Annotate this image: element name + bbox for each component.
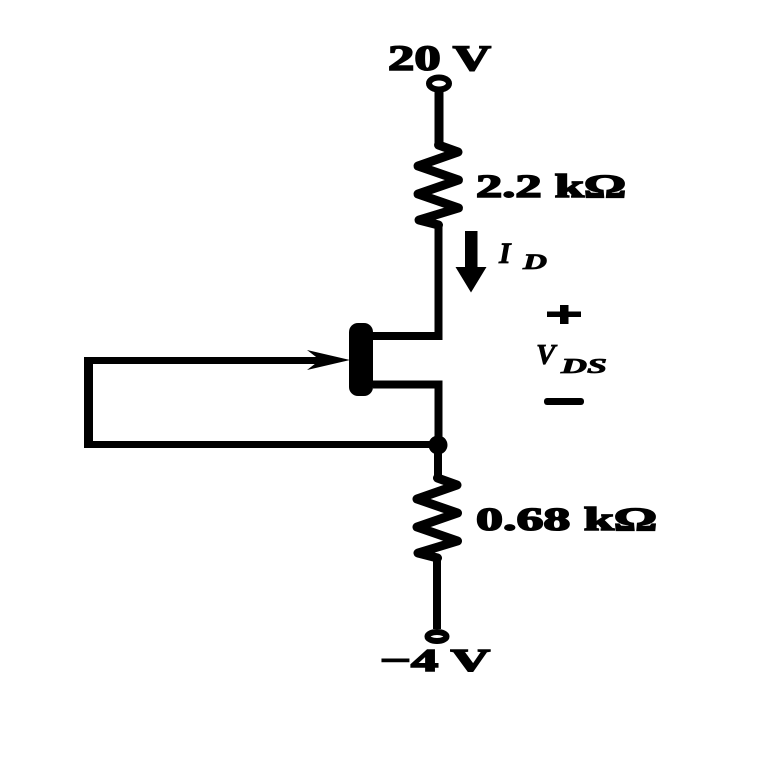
wire gate lead [89,357,331,364]
junction node dot [429,436,448,455]
wire R1 to drain [372,224,439,336]
gate arrowhead [307,350,350,370]
svg-text:D: D [521,249,547,274]
wire VDD to R1 [435,90,444,146]
wire junction to R2 [434,444,442,479]
svg-text:DS: DS [559,354,607,378]
label VDS [536,339,607,378]
label minus [544,398,584,405]
svg-text:2.2 kΩ: 2.2 kΩ [476,169,626,205]
svg-text:I: I [498,237,512,270]
resistor R1 2.2 kOhm [418,145,459,225]
wire feedback bottom horizontal [84,441,437,448]
svg-text:0.68 kΩ: 0.68 kΩ [476,502,657,538]
svg-text:V: V [536,339,558,371]
transistor Q1 gate bar [349,323,373,396]
terminal VDD [429,78,449,90]
label plus [547,305,581,324]
resistor R2 0.68 kOhm [417,478,458,558]
wire feedback left vertical [84,357,93,445]
current arrow ID [456,231,487,293]
svg-text:20 V: 20 V [388,38,491,78]
wire R2 to VSS terminal [433,557,441,629]
wire source to junction [373,385,439,446]
terminal VSS [428,632,447,641]
label ID [498,237,547,274]
svg-text:−4 V: −4 V [380,642,490,678]
